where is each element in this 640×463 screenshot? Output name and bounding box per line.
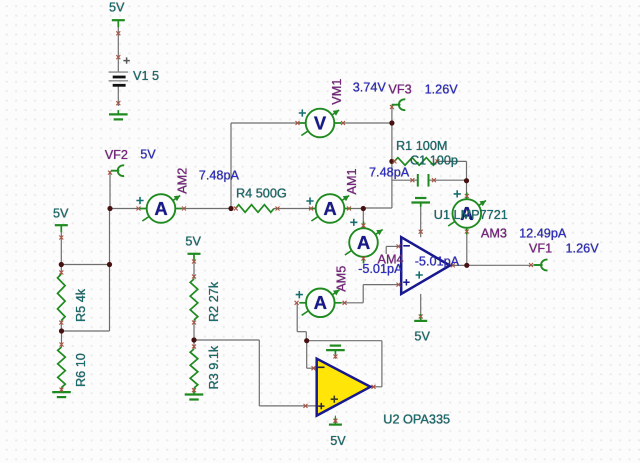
op-amp U1 power stem top: [420, 203, 422, 238]
voltage pin VF3: [399, 99, 405, 110]
svg-text:AM5: AM5: [335, 266, 349, 292]
svg-text:5V: 5V: [140, 148, 156, 162]
wire C1 right lead: [429, 179, 467, 181]
wire feedback vertical top: [391, 123, 393, 208]
op-amp U2 power stem bottom: [334, 416, 336, 424]
wire node A to node B horizontal: [61, 264, 109, 266]
wire R6 bottom: [61, 388, 63, 393]
wire AM5 jog v2: [305, 332, 307, 341]
wire VF1 lead grey: [533, 264, 539, 266]
power rail symbol top: [112, 19, 125, 21]
wire AM5 left jog v1: [296, 303, 298, 332]
svg-text:C1 100p: C1 100p: [410, 154, 458, 168]
svg-text:5V: 5V: [185, 235, 201, 249]
ammeter AM5: [302, 311, 309, 316]
op-amp U1: [401, 237, 450, 294]
op-amp U2 minus mark: [318, 366, 325, 368]
resistor R5 body: [58, 274, 66, 321]
capacitor C1: [417, 174, 419, 187]
ammeter AM4: [345, 250, 352, 255]
svg-text:U2 OPA335: U2 OPA335: [383, 412, 450, 426]
node R1-left junction: [389, 159, 394, 164]
svg-text:3.74V: 3.74V: [353, 80, 387, 94]
resistor R1 body: [394, 158, 437, 166]
wire U2 plus input: [259, 405, 316, 407]
svg-text:12.49pA: 12.49pA: [519, 226, 567, 240]
wire U2 output: [370, 386, 382, 388]
battery V1: [109, 71, 128, 73]
wire minus input riser: [385, 246, 387, 254]
voltmeter VM1: [301, 131, 308, 136]
wire R2 top: [193, 261, 195, 279]
node AM1-AM4 junction: [361, 206, 366, 211]
ammeter AM4 plus: [350, 219, 357, 226]
ammeter AM1 plus: [306, 197, 313, 204]
op-amp U1 power stem bottom: [420, 294, 422, 321]
pin end marks: [116, 31, 120, 35]
battery plus sign: [123, 57, 129, 63]
wire U2 minus input: [307, 367, 317, 369]
resistor R6 body: [58, 347, 66, 388]
wire AM5 right: [335, 302, 364, 304]
svg-text:1.26V: 1.26V: [425, 82, 459, 96]
wire output to VF1: [467, 264, 533, 266]
wire R5 bottom: [60, 321, 62, 332]
ammeter AM2 plus: [136, 197, 143, 204]
svg-text:VF1: VF1: [529, 241, 552, 255]
wire vertical AM2-left down: [109, 209, 111, 332]
wire divider corner down: [258, 340, 260, 406]
node U2 input junction: [304, 338, 309, 343]
wire VM1 left: [231, 122, 306, 124]
resistor R4 body: [236, 205, 275, 213]
power 5V left T: [55, 224, 68, 226]
wire node to feedback vertical: [363, 207, 392, 209]
ground below R3: [193, 390, 195, 394]
svg-text:V: V: [314, 112, 327, 133]
wire VM1 elbow vertical: [230, 123, 232, 209]
wire VF2 stub vertical: [109, 171, 111, 208]
svg-text:AM1: AM1: [345, 168, 359, 194]
wire R5 top: [60, 265, 62, 275]
svg-text:7.48pA: 7.48pA: [199, 169, 240, 183]
wire C1 left lead: [392, 179, 417, 181]
ammeter AM2: [142, 216, 149, 221]
node output junction: [464, 263, 469, 268]
wire AM4 top: [362, 209, 364, 230]
wire VF3 lead: [392, 104, 400, 106]
wire VM1 right: [335, 122, 392, 124]
node left-branch top-right: [107, 262, 112, 267]
svg-text:R2 27k: R2 27k: [207, 281, 221, 322]
svg-text:5V: 5V: [414, 329, 430, 343]
wire battery top: [117, 21, 119, 72]
wire battery bottom to ground: [117, 87, 119, 107]
svg-text:U1 LMP7721: U1 LMP7721: [434, 208, 508, 222]
wire R2R3 node right: [194, 339, 259, 341]
svg-text:VF2: VF2: [105, 148, 128, 162]
wire AM3 bottom to output: [466, 228, 468, 266]
ammeter AM3 plus: [454, 190, 461, 197]
wire AM1 right to node: [344, 208, 363, 210]
op-amp U2 power stem top: [334, 350, 336, 359]
wire minus input: [386, 245, 401, 247]
wire R3 bottom: [193, 388, 195, 394]
resistor R3 body: [190, 349, 198, 388]
wire U1 output: [450, 264, 467, 266]
wire AM5 jog h: [297, 331, 306, 333]
node R2-R3 junction: [191, 337, 196, 342]
node R5-R6 junction: [59, 328, 64, 333]
wire U2 feedback down: [381, 341, 383, 387]
ammeter AM3: [448, 221, 455, 226]
power 5V mid T (R2): [188, 253, 201, 255]
ground above U2 (V-): [334, 350, 336, 354]
resistor R2 body: [190, 279, 198, 320]
ground above U1 (V-): [420, 203, 422, 207]
wire R3 top: [193, 340, 195, 349]
wire plus input: [363, 284, 401, 286]
svg-text:1.26V: 1.26V: [566, 241, 600, 255]
ground below battery: [117, 110, 119, 114]
svg-text:R4 500G: R4 500G: [236, 187, 287, 201]
wire AM3 top: [466, 181, 468, 200]
svg-text:VF3: VF3: [388, 82, 411, 96]
ground below R6: [61, 388, 63, 392]
wire R6 top: [61, 331, 63, 347]
svg-text:A: A: [314, 292, 327, 313]
svg-text:5V: 5V: [330, 434, 346, 448]
voltmeter VM1 plus: [299, 109, 306, 116]
power 5V T below U1: [414, 320, 427, 322]
svg-text:A: A: [154, 198, 167, 219]
op-amp U2: [317, 359, 371, 416]
wire VF3 riser: [391, 105, 393, 123]
wire R1 right lead: [437, 160, 467, 162]
wire left 5V down to node: [60, 226, 62, 265]
svg-text:A: A: [357, 232, 370, 253]
wire plus corner: [362, 285, 364, 303]
svg-text:R1 100M: R1 100M: [396, 139, 447, 153]
wire R2 bottom: [193, 320, 195, 340]
op-amp U2 inner plus mark: [331, 396, 338, 403]
svg-text:VM1: VM1: [330, 79, 344, 105]
svg-text:5V: 5V: [109, 1, 125, 15]
wire elbow to R5-R6 junction: [62, 330, 110, 332]
op-amp U1 plus mark: [403, 279, 409, 285]
wire R1 corner down: [466, 161, 468, 180]
svg-text:-5.01pA: -5.01pA: [415, 255, 460, 269]
ammeter AM5 plus: [296, 291, 303, 298]
svg-text:AM4: AM4: [378, 253, 404, 267]
node R4-left junction: [228, 206, 233, 211]
op-amp U2 plus mark: [318, 403, 324, 409]
svg-text:AM3: AM3: [481, 226, 507, 240]
node left-branch top-left: [59, 262, 64, 267]
node VM1-VF3 junction: [389, 120, 394, 125]
wire R4 to AM1: [274, 208, 316, 210]
svg-text:V1 5: V1 5: [133, 69, 159, 83]
ammeter AM1: [311, 216, 318, 221]
svg-text:5V: 5V: [53, 207, 69, 221]
svg-text:AM2: AM2: [175, 168, 189, 194]
svg-text:A: A: [323, 198, 336, 219]
svg-text:R6 10: R6 10: [74, 353, 88, 387]
node R1-C1 right junction: [464, 178, 469, 183]
power 5V T below U2: [329, 424, 342, 426]
wire rail AM2 to R4 node: [176, 208, 232, 210]
wire rail AM2 left: [110, 208, 147, 210]
wire U2 node to minus v: [306, 341, 308, 369]
voltage pin VF1: [541, 260, 547, 271]
svg-text:R5 4k: R5 4k: [74, 288, 88, 322]
op-amp U1 inner plus mark: [416, 271, 423, 278]
svg-text:R3 9.1k: R3 9.1k: [207, 345, 221, 389]
svg-text:7.48pA: 7.48pA: [369, 166, 410, 180]
wire U2 node right: [307, 340, 382, 342]
voltage pin VF2: [118, 165, 124, 176]
op-amp U1 minus mark: [403, 245, 410, 247]
node AM2-left junction: [107, 206, 112, 211]
